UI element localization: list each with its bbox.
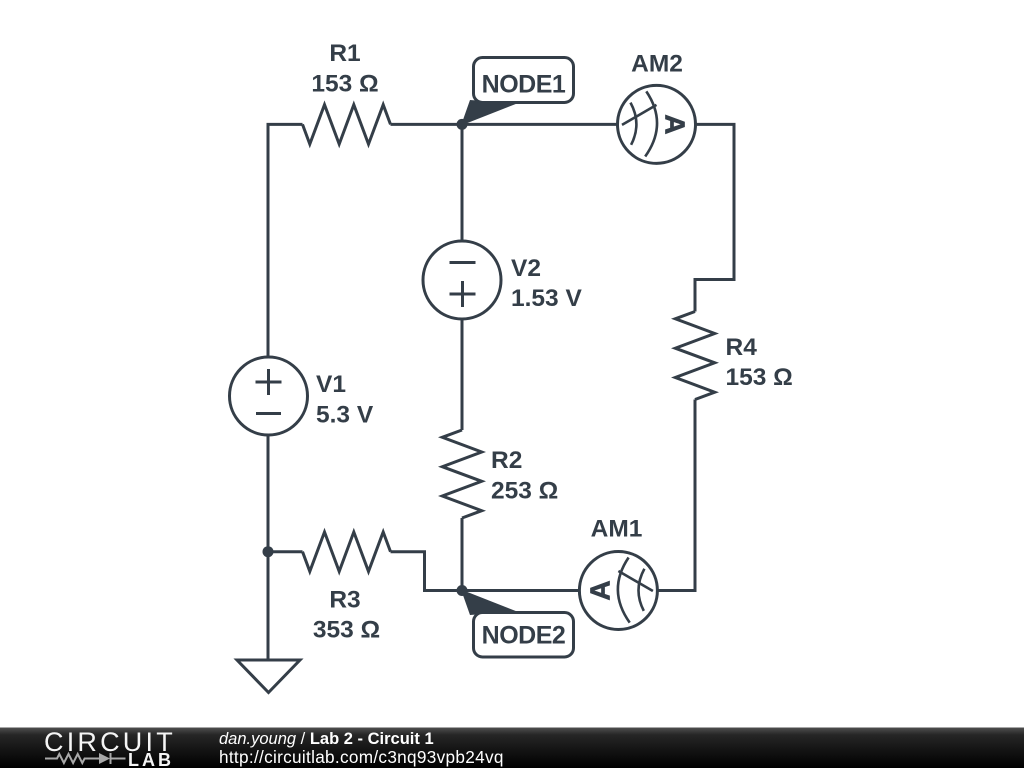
- svg-text:V1: V1: [316, 371, 346, 398]
- svg-text:5.3 V: 5.3 V: [316, 401, 374, 428]
- wire R1.2 through NODE1 to AM2.left: [391, 123, 618, 126]
- wire V1.- down to ground: [267, 435, 270, 660]
- svg-text:A: A: [660, 114, 691, 134]
- svg-text:253 Ω: 253 Ω: [491, 478, 558, 505]
- wire R2.2 down to NODE2: [461, 518, 464, 591]
- svg-text:353 Ω: 353 Ω: [313, 617, 380, 644]
- wire NODE2 to R3.2: [391, 552, 463, 591]
- svg-text:A: A: [584, 580, 615, 600]
- ammeter AM2: [618, 85, 696, 163]
- svg-text:R1: R1: [329, 40, 360, 67]
- svg-text:153 Ω: 153 Ω: [311, 70, 378, 97]
- svg-text:http://circuitlab.com/c3nq93vp: http://circuitlab.com/c3nq93vpb24vq: [219, 747, 504, 767]
- svg-text:1.53 V: 1.53 V: [511, 285, 582, 312]
- node label NODE1: [461, 58, 574, 126]
- resistor R4: [675, 312, 714, 400]
- resistor R3: [303, 532, 391, 571]
- voltage source V1: [230, 357, 308, 435]
- svg-text:LAB: LAB: [128, 750, 174, 768]
- wire NODE1 down to V2.-: [461, 124, 464, 241]
- ammeter AM1: [579, 552, 657, 630]
- svg-text:NODE2: NODE2: [482, 622, 566, 650]
- ground: [237, 660, 300, 693]
- footer bar: [0, 728, 1024, 768]
- svg-text:AM1: AM1: [591, 516, 643, 543]
- wire R3.1 to left rail junction: [268, 550, 303, 553]
- svg-text:V2: V2: [511, 255, 541, 282]
- node NODE2 junction dot: [457, 585, 468, 596]
- resistor R1: [303, 105, 391, 144]
- node NODE1 junction dot: [457, 119, 468, 130]
- junction V1/R3/ground: [263, 546, 274, 557]
- svg-text:NODE1: NODE1: [482, 71, 566, 99]
- svg-text:AM2: AM2: [631, 51, 683, 78]
- voltage source V2: [423, 241, 501, 319]
- svg-text:153 Ω: 153 Ω: [726, 364, 793, 391]
- wire R4.2 down to AM1.right: [657, 400, 695, 591]
- wire AM1.left to NODE2: [462, 589, 579, 592]
- svg-text:R2: R2: [491, 447, 522, 474]
- node label NODE2: [461, 590, 574, 658]
- logo CircuitLab: [44, 727, 176, 768]
- resistor R2: [442, 430, 481, 518]
- wire V1.+ up left rail to R1.1: [268, 124, 303, 357]
- wire V2.+ down to R2.1: [461, 319, 464, 430]
- svg-text:R3: R3: [329, 587, 360, 614]
- wire AM2.right down to R4.1: [695, 124, 734, 311]
- svg-text:R4: R4: [726, 334, 758, 361]
- svg-text:dan.young / Lab 2 - Circuit 1: dan.young / Lab 2 - Circuit 1: [219, 730, 434, 748]
